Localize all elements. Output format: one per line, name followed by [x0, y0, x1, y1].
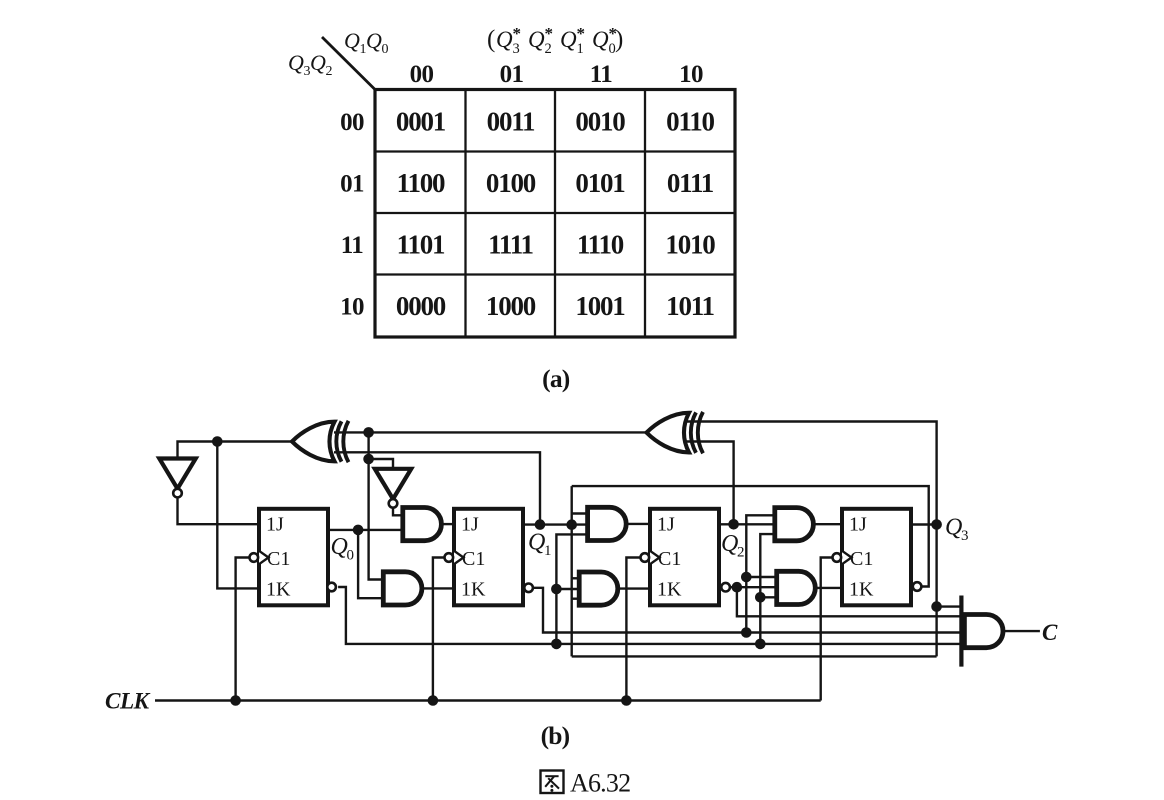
U2 inverted output bubble: [524, 584, 533, 593]
svg-text:01: 01: [500, 61, 524, 88]
wire: XOR G6 output to XOR G5 upper input: [334, 431, 647, 433]
node: junction on NOT-Q2 line: [732, 582, 743, 593]
svg-text:10: 10: [679, 61, 703, 88]
AND gate G6a (K input of U3): [579, 572, 618, 605]
svg-text:*: *: [577, 24, 586, 43]
svg-text:C1: C1: [658, 548, 681, 570]
wire: AND G7 upper input vertical to NOT-Q1 rail: [746, 515, 775, 632]
JK flip-flop U4: [842, 509, 911, 606]
wire: tap from XOR G5 output down to FF U1 pin 1K: [217, 442, 259, 589]
svg-text:1: 1: [577, 41, 584, 57]
svg-text:0: 0: [347, 548, 355, 564]
svg-text:Q: Q: [528, 530, 545, 556]
JK flip-flop U2: [454, 509, 523, 606]
wire: Q3 tap into AND U9 input bar: [937, 605, 962, 607]
AND gate G7 (J input of U4): [775, 508, 814, 541]
svg-text:Q: Q: [945, 515, 962, 541]
header label Q1Q0: [344, 28, 389, 57]
node: junction Q1 to XOR G5 feedback: [535, 519, 546, 530]
header label Q3Q2: [288, 50, 333, 79]
U1 clock input bubble: [250, 553, 259, 562]
wire: AND G5a lower input vertical to NOT-Q0 rail: [556, 534, 587, 644]
wire: XOR G5 output to inverter G1 input: [178, 442, 293, 459]
svg-text:3: 3: [513, 41, 520, 57]
wire: stub to AND G8 upper input: [746, 576, 776, 578]
node: junction Q3: [931, 519, 942, 530]
wire: FF U4 clock C1 down to CLK rail corner: [821, 558, 833, 701]
wire: FF U2 inverted output to NOT-Q1 rail into AND U9 bar: [534, 588, 962, 633]
svg-text:A6.32: A6.32: [570, 769, 630, 798]
U3 inverted output bubble: [721, 583, 730, 592]
svg-text:1K: 1K: [657, 579, 682, 601]
column headers 00 01 11 10: [410, 61, 703, 88]
wire: AND G8 output to FF U4 pin 1K: [815, 587, 842, 589]
JK flip-flop U3: [650, 509, 719, 606]
node: junction NOT-Q0 vertical to AND G8: [755, 592, 766, 603]
svg-text:1K: 1K: [461, 579, 486, 601]
svg-text:Q: Q: [366, 28, 382, 53]
table cell values: [396, 107, 715, 322]
wire: stub to AND G6a middle input: [556, 588, 579, 590]
node: junction Q3 vertical to AND U9: [931, 601, 942, 612]
svg-text:(b): (b): [541, 721, 570, 750]
wire: branch to inverter G2 input: [369, 459, 393, 469]
wire: AND G5a output to FF U3 pin 1J: [626, 523, 650, 525]
wire: stub to AND G6a lower input: [572, 598, 580, 600]
JK flip-flop U1: [259, 509, 328, 606]
wire: Q2 feedback to XOR G6 lower input: [680, 442, 734, 525]
svg-text:Q: Q: [310, 50, 326, 75]
inverter G1: [159, 459, 195, 498]
U3 clock input bubble: [641, 553, 650, 562]
AND gate G3 (J input of U2): [403, 508, 442, 541]
svg-text:1001: 1001: [575, 291, 625, 321]
AND gate G8 (K input of U4): [777, 571, 816, 604]
wire: stub to AND G6a upper input: [572, 577, 580, 579]
wire: Q3 rail from AND G6a cell to Q3 vertical: [572, 655, 937, 657]
wire: stub to AND G8 lower input: [760, 596, 776, 598]
U1 inverted output bubble: [327, 583, 336, 592]
wire: AND G7 output to FF U4 pin 1J: [813, 523, 842, 525]
wire: FF U4 output Q3 stub: [912, 523, 941, 525]
wire: FF U3 clock C1 to CLK rail: [626, 558, 640, 701]
svg-text:): ): [615, 26, 623, 53]
table header diagonal line: [322, 37, 376, 90]
node: junction Q2 to XOR G6 feedback: [728, 519, 739, 530]
AND gate G4 (K input of U2): [383, 572, 422, 605]
svg-text:3: 3: [961, 528, 969, 544]
wire: NOT-Q2 branch down to rail into AND U9 bar: [737, 587, 962, 616]
U4 inverted output bubble: [913, 582, 922, 591]
svg-text:(a): (a): [542, 364, 570, 393]
svg-text:Q: Q: [721, 531, 738, 557]
svg-text:0101: 0101: [575, 168, 625, 198]
svg-text:C1: C1: [850, 548, 873, 570]
svg-text:1111: 1111: [488, 230, 533, 260]
wire: FF U1 output Q0 to AND G3 lower input: [327, 529, 403, 531]
svg-text:1000: 1000: [486, 291, 536, 321]
svg-text:C1: C1: [462, 548, 485, 570]
node: CLK junction to FF U3: [621, 695, 632, 706]
wire: vertical ladder at FF U3 cell (NOT-Q3 / Q1 / Q3 taps): [571, 486, 573, 656]
svg-text:0011: 0011: [487, 107, 535, 137]
wire: FF U4 inverted output up to NOT-Q3 rail back to AND G5a cell: [572, 486, 929, 586]
node: junction feeding inverter G2: [363, 454, 374, 465]
svg-text:1K: 1K: [266, 579, 291, 601]
wire: Q1 feedback to XOR G5 lower input: [334, 452, 540, 524]
caption figure number 图 A6.32: [541, 769, 631, 798]
svg-text:Q: Q: [592, 27, 609, 52]
wire: AND G6a output to FF U3 pin 1K: [619, 587, 650, 589]
wire: FF U1 clock C1 to CLK rail: [236, 558, 249, 701]
wire: inverter G1 output down to FF U1 pin 1J: [178, 498, 260, 525]
XOR gate G6 (mirrored, output at left): [647, 412, 704, 453]
node: NOT-Q0 rail junction to AND G4b vertical: [551, 639, 562, 650]
wire: Q3 feedback to XOR G6 upper input: [680, 422, 937, 525]
node: junction Q1 to AND G5a/G6a verticals: [566, 519, 577, 530]
svg-text:1J: 1J: [657, 514, 675, 536]
svg-text:0100: 0100: [486, 168, 536, 198]
U2 clock input bubble: [445, 553, 454, 562]
node label Q1: [528, 530, 552, 560]
svg-text:Q: Q: [331, 534, 348, 560]
svg-text:C1: C1: [267, 548, 290, 570]
svg-text:0: 0: [382, 42, 389, 57]
svg-text:2: 2: [737, 545, 745, 561]
wire: AND G4 output to FF U2 pin 1K: [421, 587, 454, 589]
wire: FF U1 inverted output to NOT-Q0 rail into AND U9 bar: [338, 587, 961, 644]
svg-text:Q: Q: [496, 27, 513, 52]
svg-text:(: (: [487, 26, 495, 53]
svg-text:0000: 0000: [396, 291, 446, 321]
svg-text:00: 00: [340, 109, 364, 136]
wire: AND G3 output to FF U2 pin 1J: [441, 523, 454, 525]
U4 clock input bubble: [833, 553, 842, 562]
svg-text:0110: 0110: [666, 107, 714, 137]
table vertical grid lines: [466, 90, 646, 338]
row headers 00 01 11 10: [340, 109, 364, 321]
node: CLK junction to FF U2: [428, 695, 439, 706]
svg-text:1110: 1110: [577, 230, 624, 260]
svg-text:1J: 1J: [461, 514, 479, 536]
node: NOT-Q1 rail junction to AND G7 vertical: [741, 627, 752, 638]
wire: XOR G6 output branch down to AND G4 upper input: [369, 432, 384, 579]
wire: inverter G2 output to AND G3 upper input: [393, 508, 403, 516]
wire: stub to AND G5a upper input: [572, 512, 588, 514]
inverter G2: [375, 469, 411, 508]
svg-text:1K: 1K: [849, 579, 874, 601]
svg-text:1J: 1J: [849, 514, 867, 536]
wire: FF U3 inverted output to AND G8 middle input: [730, 586, 777, 588]
node label Q0: [331, 534, 355, 564]
node: CLK junction to FF U1: [230, 695, 241, 706]
AND gate G5a (J input of U3): [588, 507, 627, 540]
svg-text:1J: 1J: [266, 514, 284, 536]
svg-text:Q: Q: [288, 50, 304, 75]
svg-text:0001: 0001: [396, 107, 446, 137]
node label Q3: [945, 515, 969, 545]
table title (Q3* Q2* Q1* Q0*): [487, 24, 623, 57]
table horizontal grid lines: [375, 152, 735, 275]
node: junction on Q0: [353, 525, 364, 536]
node: junction on XOR G6 output line: [363, 427, 374, 438]
svg-text:2: 2: [326, 64, 333, 79]
wire: FF U2 output Q1 to AND G5a input: [525, 523, 588, 525]
svg-text:1010: 1010: [665, 230, 715, 260]
svg-text:11: 11: [590, 61, 613, 88]
svg-text:*: *: [513, 24, 522, 43]
svg-text:C: C: [1042, 620, 1058, 645]
wire: AND U9 output to C: [1001, 630, 1040, 632]
svg-text:2: 2: [545, 41, 552, 57]
svg-text:Q: Q: [528, 27, 545, 52]
svg-text:0010: 0010: [575, 107, 625, 137]
svg-text:1100: 1100: [397, 168, 445, 198]
svg-text:0111: 0111: [667, 168, 714, 198]
svg-text:Q: Q: [560, 27, 577, 52]
wire: CLK rail: [155, 699, 821, 701]
XOR gate G5 (mirrored, output at left): [292, 421, 349, 462]
node: NOT-Q0 rail junction to AND G8 vertical: [755, 639, 766, 650]
node: junction XOR G5 out / 1K tap: [212, 436, 223, 447]
node label Q2: [721, 531, 745, 561]
state table (a) outer border: [375, 90, 735, 338]
svg-text:*: *: [545, 24, 554, 43]
svg-text:00: 00: [410, 61, 434, 88]
node: junction NOT-Q1 vertical to AND G8: [741, 572, 752, 583]
wire: Q3 vertical down to Q3 rail: [935, 525, 937, 657]
wire: FF U2 clock C1 to CLK rail: [433, 558, 444, 701]
wire: Q0 branch down to AND G4 lower input: [358, 530, 383, 598]
svg-text:11: 11: [341, 232, 364, 259]
svg-text:10: 10: [340, 294, 364, 321]
wire: AND G7 lower input vertical to NOT-Q0 rail: [760, 534, 775, 644]
svg-text:1011: 1011: [666, 291, 714, 321]
svg-text:01: 01: [340, 171, 364, 198]
svg-text:1: 1: [544, 543, 552, 559]
svg-text:1101: 1101: [397, 230, 445, 260]
output AND gate U9 with input bar: [961, 596, 1003, 667]
svg-text:Q: Q: [344, 28, 360, 53]
node: junction on NOT-Q0 vertical to AND G6a: [551, 584, 562, 595]
svg-text:CLK: CLK: [105, 689, 151, 715]
wire: FF U3 output Q2 to AND G7 middle input: [721, 523, 775, 525]
